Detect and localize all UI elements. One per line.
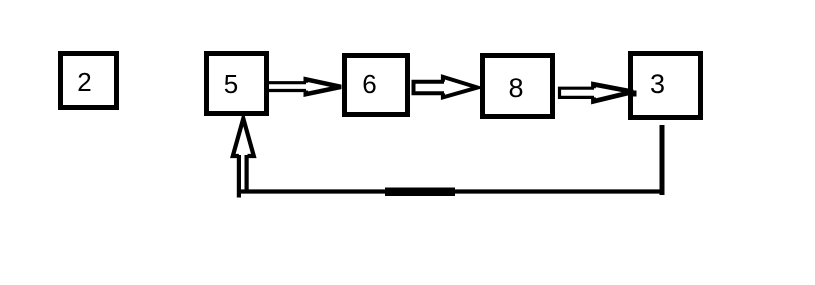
svg-text:2: 2 [77,67,91,97]
arrow 8 to 3 (hollow block arrow) [560,84,637,101]
feedback wire: vertical drop from box 3 [660,125,665,195]
svg-text:5: 5 [224,69,238,99]
svg-text:6: 6 [362,69,376,99]
box 5 [207,54,267,114]
arrow 5 to 6 (hollow block arrow) [266,79,341,94]
svg-text:3: 3 [650,69,665,99]
box 2 [61,54,117,108]
feedback up-arrow into box 5 (hollow) [233,119,254,198]
arrow 6 to 8 (hollow block arrow) [414,77,478,98]
svg-text:8: 8 [508,73,523,103]
box 3 [631,54,701,118]
box 6 [345,56,408,115]
box 8 [483,56,553,117]
feedback wire: bottom horizontal [239,189,665,193]
feedback wire: thick overlapping segment [385,187,455,196]
